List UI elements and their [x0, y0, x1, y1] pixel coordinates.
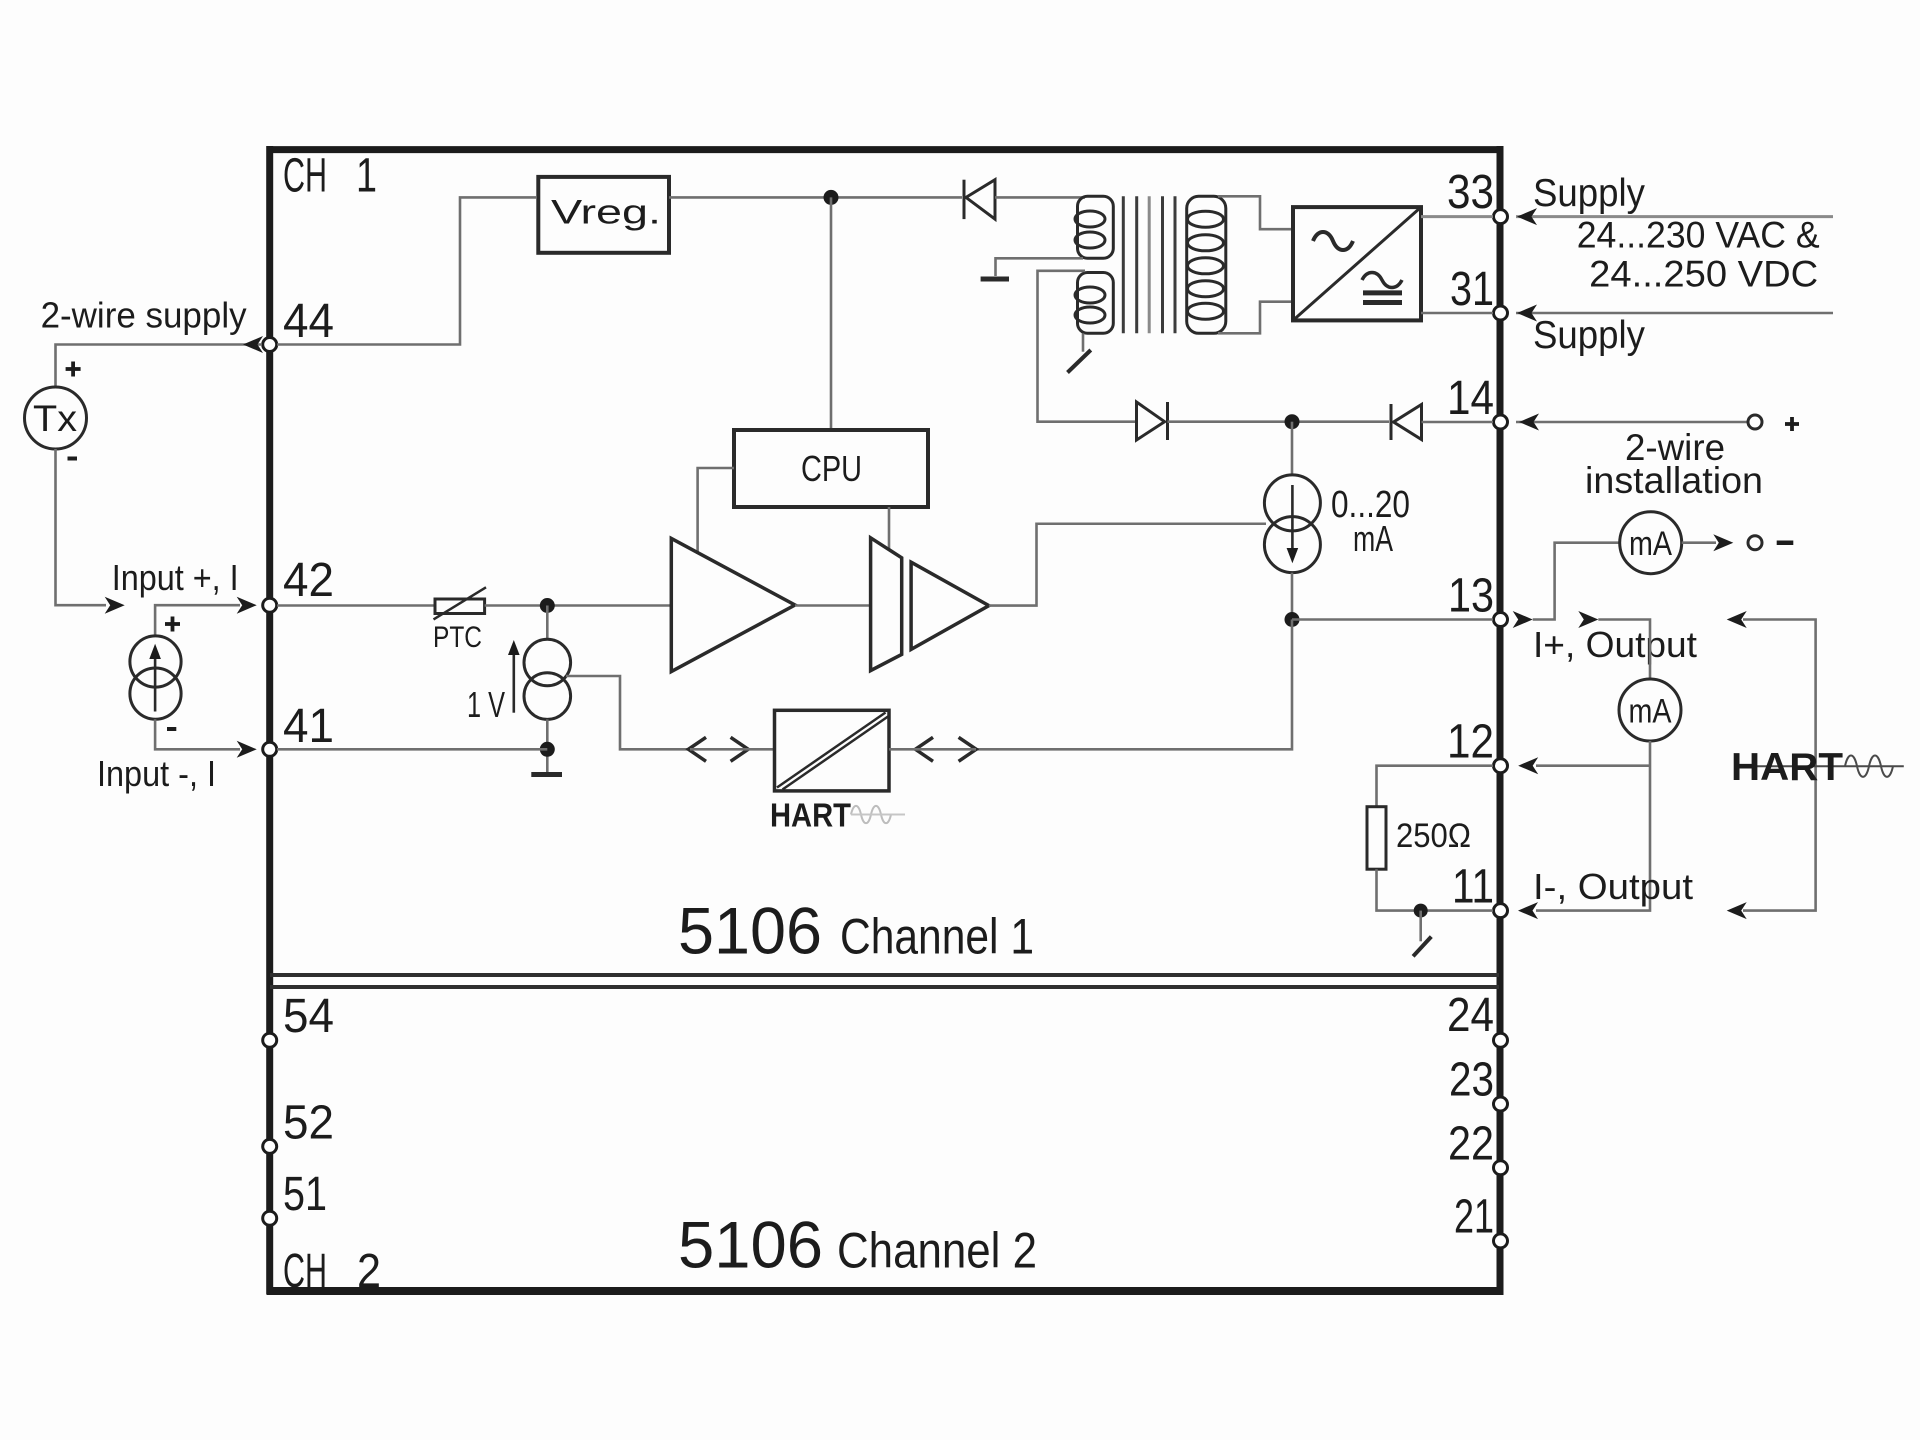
- pin label 12: [1447, 716, 1494, 769]
- label installation: [1585, 460, 1763, 501]
- pin label 33: [1447, 166, 1494, 219]
- label 2-wire: [1625, 427, 1725, 468]
- terminal 13: [1494, 613, 1508, 627]
- meter M2 (mA): [1619, 679, 1681, 741]
- wire terminal 12 to meter M2 branch: [1536, 764, 1650, 767]
- label Supply (33): [1533, 172, 1645, 215]
- arrow into terminal 42: [237, 597, 257, 614]
- wire junction down to 1V source: [546, 606, 549, 641]
- wire 1V source tap to HART modem: [566, 676, 690, 749]
- terminal 14: [1494, 415, 1508, 429]
- svg-text:13: 13: [1448, 570, 1494, 623]
- pin label 31: [1450, 263, 1494, 316]
- svg-text:Supply: Supply: [1533, 314, 1645, 357]
- arrow into terminal 11: [1518, 902, 1538, 919]
- label + (input source): [165, 617, 180, 632]
- terminal 24: [1494, 1033, 1508, 1047]
- meter M1 (mA): [1620, 512, 1682, 574]
- pin label 21: [1454, 1191, 1494, 1244]
- svg-text:CH: CH: [283, 1245, 327, 1298]
- svg-text:PTC: PTC: [433, 621, 482, 654]
- terminal 31: [1494, 306, 1508, 320]
- terminal 23: [1494, 1097, 1508, 1111]
- wire CPU bottom to amplifier A2: [888, 507, 891, 549]
- wire D1 to transformer primary: [995, 196, 1085, 199]
- svg-text:I-, Output: I-, Output: [1533, 866, 1693, 907]
- arrow into 2-wire supply: [243, 336, 263, 353]
- CPU block: [734, 430, 928, 507]
- wire: main box left border: [266, 146, 273, 1294]
- transformer T1 primary winding (upper): [1075, 196, 1113, 258]
- svg-text:11: 11: [1452, 861, 1494, 914]
- switch (transformer tap): [1068, 350, 1091, 373]
- arrow into terminal 33: [1517, 208, 1537, 225]
- wire primary upper return to ground: [996, 258, 1084, 276]
- pin label 24: [1447, 989, 1494, 1042]
- wire secondary bottom to converter: [1218, 302, 1291, 334]
- wire terminal 44 to transmitter Tx: [56, 345, 263, 388]
- label 24...250 VDC: [1589, 254, 1818, 295]
- arrow HART loop top: [1727, 611, 1747, 628]
- label - (input source): [167, 727, 176, 731]
- wire terminal 12 to 250R: [1377, 766, 1494, 807]
- wire meter M2 to terminal 11: [1536, 741, 1650, 911]
- switch (loop link): [1413, 911, 1431, 957]
- wire D3 to terminal 14: [1422, 421, 1494, 424]
- svg-text:44: 44: [283, 295, 334, 348]
- label I+, Output: [1533, 624, 1697, 665]
- svg-text:250Ω: 250Ω: [1396, 817, 1471, 855]
- label - (Tx): [68, 457, 78, 461]
- svg-text:24...250 VDC: 24...250 VDC: [1589, 254, 1818, 295]
- svg-text:Channel 2: Channel 2: [837, 1223, 1037, 1279]
- svg-text:Supply: Supply: [1533, 172, 1645, 215]
- transformer T1 secondary winding: [1187, 196, 1226, 333]
- terminal 51: [263, 1211, 277, 1225]
- label Supply (31): [1533, 314, 1645, 357]
- wire terminal 42 to PTC: [277, 604, 437, 607]
- node + (external loop): [1748, 415, 1762, 429]
- wire converter to terminal 31: [1421, 312, 1493, 315]
- svg-text:14: 14: [1447, 372, 1494, 425]
- pin label 42: [283, 554, 334, 607]
- svg-text:51: 51: [283, 1168, 327, 1221]
- arrow HART loop bottom: [1727, 902, 1747, 919]
- wire primary lower bottom stub: [1082, 333, 1085, 351]
- wire to meter M2: [1598, 620, 1650, 680]
- svg-text:I+, Output: I+, Output: [1533, 624, 1697, 665]
- label 5106 Channel 1: [678, 893, 1034, 967]
- arrow to meter M2: [1578, 611, 1598, 628]
- svg-text:24: 24: [1447, 989, 1494, 1042]
- bidirectional arrow (modem right): [915, 737, 976, 761]
- wire junction down to HART modem: [976, 620, 1292, 750]
- diode D3 (from terminal 14): [1391, 404, 1422, 440]
- pin label 22: [1448, 1118, 1494, 1171]
- transmitter Tx: [25, 387, 87, 449]
- svg-text:33: 33: [1447, 166, 1494, 219]
- wire HART handheld loop: [1743, 620, 1816, 911]
- terminal 52: [263, 1139, 277, 1153]
- wire terminal 13 to meter M1: [1533, 543, 1620, 620]
- wire secondary top to converter: [1218, 196, 1291, 229]
- wire input source top to terminal 42: [155, 605, 240, 636]
- svg-text:23: 23: [1449, 1054, 1494, 1107]
- wire junction down to 0...20mA source: [1291, 422, 1294, 476]
- label Input +, I: [112, 557, 239, 598]
- label I-, Output: [1533, 866, 1693, 907]
- svg-text:mA: mA: [1629, 693, 1672, 731]
- svg-text:CH: CH: [283, 149, 327, 202]
- node: diode row junction: [1285, 414, 1300, 429]
- diode D1 (rail to transformer): [964, 180, 995, 219]
- svg-text:42: 42: [283, 554, 334, 607]
- arrow (input source direction): [149, 644, 161, 712]
- wire: main box top border: [267, 146, 1504, 153]
- svg-text:HART: HART: [770, 797, 851, 834]
- node: row 13 junction: [1285, 612, 1300, 627]
- svg-text:24...230 VAC &: 24...230 VAC &: [1577, 215, 1820, 256]
- terminal 41: [263, 742, 277, 756]
- wire junction to terminal 13: [1292, 618, 1493, 621]
- svg-text:2: 2: [357, 1245, 381, 1298]
- svg-text:CPU: CPU: [801, 448, 862, 489]
- label 24...230 VAC &: [1577, 215, 1820, 256]
- resistor PTC: [433, 587, 486, 654]
- label 2-wire supply: [41, 295, 247, 336]
- label + (loop): [1785, 417, 1799, 431]
- arrow out of terminal 13: [1513, 611, 1533, 628]
- modem U2 (HART): [775, 710, 890, 791]
- svg-text:2-wire supply: 2-wire supply: [41, 295, 247, 336]
- wire PTC to amplifier A1 input: [485, 604, 671, 607]
- svg-text:21: 21: [1454, 1191, 1494, 1244]
- logo HART (modem): [770, 797, 905, 834]
- arrow (1V source direction): [508, 640, 520, 713]
- svg-text:52: 52: [283, 1097, 334, 1150]
- svg-text:Vreg.: Vreg.: [551, 193, 661, 231]
- node - (external loop): [1748, 536, 1762, 550]
- wire supply to terminal 31: [1516, 312, 1833, 315]
- logo HART (handheld): [1731, 746, 1904, 789]
- arrow into terminal 31: [1517, 305, 1537, 322]
- node: PTC / 1V source junction: [540, 598, 555, 613]
- svg-text:1: 1: [356, 149, 377, 202]
- pin label 23: [1449, 1054, 1494, 1107]
- amplifier A1: [671, 538, 795, 671]
- wire supply to terminal 33: [1516, 215, 1833, 218]
- svg-text:Channel 1: Channel 1: [840, 908, 1034, 964]
- wire terminal 41 to ground junction: [277, 748, 547, 751]
- svg-text:22: 22: [1448, 1118, 1494, 1171]
- pin label 54: [283, 990, 334, 1043]
- label CH 1: [283, 149, 377, 202]
- value label 0...20 mA: [1331, 484, 1410, 559]
- terminal 33: [1494, 210, 1508, 224]
- label + (Tx): [66, 362, 81, 377]
- wire Vreg output rail: [669, 196, 962, 199]
- converter U1 (AC/DC): [1293, 207, 1421, 320]
- node: 41 / 1V / ground junction: [540, 742, 555, 757]
- wire converter to terminal 33: [1421, 215, 1493, 218]
- wire input source bottom to terminal 41: [155, 719, 240, 749]
- pin label 14: [1447, 372, 1494, 425]
- wire 2-wire installation + to terminal 14: [1516, 421, 1747, 424]
- wire source B2 to row 13 junction: [1291, 573, 1294, 620]
- bidirectional arrow (modem left): [688, 737, 774, 761]
- ground (transformer primary): [981, 277, 1009, 282]
- node: row 11 switch junction: [1414, 904, 1428, 918]
- wire: channel separator double line: [270, 975, 1499, 987]
- svg-text:1 V: 1 V: [467, 684, 505, 725]
- value label 1V: [467, 684, 505, 725]
- pin label 13: [1448, 570, 1494, 623]
- svg-text:installation: installation: [1585, 460, 1763, 501]
- terminal 54: [263, 1033, 277, 1047]
- source B2 (0...20 mA output): [1264, 475, 1320, 573]
- wire modem left stub: [889, 748, 976, 751]
- svg-text:mA: mA: [1353, 518, 1393, 559]
- svg-text:HART: HART: [1731, 746, 1843, 789]
- wire D2 to junction: [1168, 420, 1390, 423]
- svg-text:5106: 5106: [678, 1208, 823, 1282]
- resistor 250R: [1367, 807, 1471, 870]
- source B1 (1V bias): [524, 639, 571, 719]
- svg-text:54: 54: [283, 990, 334, 1043]
- svg-text:Input +, I: Input +, I: [112, 557, 239, 598]
- wire 250R to terminal 11: [1377, 869, 1494, 910]
- pin label 41: [283, 700, 334, 753]
- svg-text:5106: 5106: [678, 893, 822, 967]
- wire meter M1 to loop -: [1682, 541, 1716, 544]
- pin label 52: [283, 1097, 334, 1150]
- label CH 2: [283, 1245, 381, 1298]
- wire: main box right border: [1497, 146, 1504, 1294]
- arrow input + direction: [105, 597, 125, 614]
- arrow (0...20mA source direction): [1287, 485, 1299, 563]
- node: Vreg rail / CPU supply junction: [824, 190, 839, 205]
- arrow into terminal 14: [1519, 414, 1539, 431]
- wire primary lower feed from diode row: [1038, 271, 1137, 422]
- label 5106 Channel 2: [678, 1208, 1037, 1282]
- regulator Vreg: [538, 177, 669, 253]
- terminal 44: [263, 338, 277, 352]
- wire junction to CPU top: [830, 197, 833, 430]
- amplifier A2 (isolating): [871, 538, 989, 671]
- transformer T1 core: [1123, 196, 1175, 333]
- svg-text:Tx: Tx: [33, 398, 78, 439]
- wire terminal 44 to Vreg input: [277, 197, 536, 344]
- wire CPU left to amplifier A1: [698, 468, 734, 554]
- terminal 21: [1494, 1234, 1508, 1248]
- pin label 11: [1452, 861, 1494, 914]
- terminal 12: [1494, 759, 1508, 773]
- source B3 (input current): [130, 636, 181, 719]
- transformer T1 primary winding (lower): [1075, 273, 1113, 334]
- wire 1V source to ground junction: [546, 719, 549, 772]
- wire: main box bottom border: [267, 1287, 1504, 1295]
- svg-text:12: 12: [1447, 716, 1494, 769]
- label - (loop): [1777, 540, 1794, 545]
- diode D2 (feed to output stage): [1137, 402, 1168, 440]
- ground (input stage): [531, 772, 562, 777]
- arrow loop - direction: [1713, 534, 1733, 551]
- terminal 22: [1494, 1161, 1508, 1175]
- wire A1 output to A2 input: [795, 604, 871, 607]
- arrow into terminal 12: [1518, 757, 1538, 774]
- svg-text:41: 41: [283, 700, 334, 753]
- svg-text:Input -, I: Input -, I: [97, 753, 216, 794]
- pin label 44: [283, 295, 334, 348]
- wire A2 output to 0...20mA source: [989, 524, 1266, 606]
- label Input -, I: [97, 753, 216, 794]
- terminal 42: [263, 598, 277, 612]
- terminal 11: [1494, 904, 1508, 918]
- wire Tx to input row: [56, 449, 107, 605]
- svg-text:31: 31: [1450, 263, 1494, 316]
- arrow into terminal 41: [237, 741, 257, 758]
- svg-text:mA: mA: [1629, 525, 1672, 563]
- pin label 51: [283, 1168, 327, 1221]
